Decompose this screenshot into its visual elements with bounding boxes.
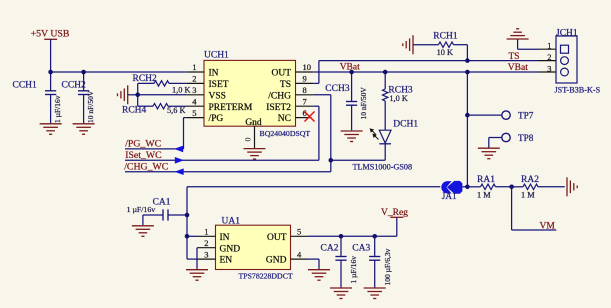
svg-text:OUT: OUT [271,69,291,79]
svg-text:/PG: /PG [209,114,224,124]
svg-text:UCH1: UCH1 [204,51,229,61]
svg-text:CCH1: CCH1 [13,80,38,90]
svg-text:IN: IN [209,69,219,79]
svg-text:CCH3: CCH3 [325,84,350,94]
svg-text:/CHG_WC: /CHG_WC [124,162,168,173]
svg-text:TP8: TP8 [518,133,534,143]
svg-text:JCH1: JCH1 [556,29,578,39]
svg-text:Gnd: Gnd [245,118,262,128]
svg-text:RCH1: RCH1 [433,31,458,41]
svg-text:RCH4: RCH4 [122,106,147,116]
svg-text:5: 5 [192,108,196,118]
svg-text:RCH2: RCH2 [133,74,158,84]
svg-text:ISet_WC: ISet_WC [125,150,161,161]
svg-text:5: 5 [297,227,301,237]
svg-text:DCH1: DCH1 [393,120,418,130]
svg-text:CCH2: CCH2 [62,80,87,90]
svg-text:3: 3 [547,64,551,74]
svg-text:8: 8 [303,85,307,95]
svg-text:ISET2: ISET2 [266,103,291,113]
svg-text:JST-B3B-K-S: JST-B3B-K-S [555,86,601,95]
svg-text:GND: GND [266,256,287,266]
svg-text:RA2: RA2 [521,175,539,185]
svg-text:NC: NC [278,114,291,124]
svg-text:TPS78228DDCT: TPS78228DDCT [239,271,293,280]
svg-text:ISET: ISET [209,80,229,90]
svg-text:1,0 K: 1,0 K [172,85,190,94]
svg-text:VSS: VSS [209,91,226,101]
svg-text:10: 10 [303,62,312,72]
svg-text:9: 9 [303,74,307,84]
svg-text:IN: IN [220,233,230,243]
svg-text:1 µF/16v: 1 µF/16v [349,256,358,284]
svg-text:+5V USB: +5V USB [31,28,70,39]
svg-text:PRETERM: PRETERM [209,103,253,113]
svg-text:5,6 K: 5,6 K [167,106,185,115]
svg-text:VBat: VBat [508,63,528,73]
svg-text:TP7: TP7 [518,111,534,121]
svg-text:EN: EN [220,256,233,266]
svg-text:/PG_WC: /PG_WC [125,139,161,150]
svg-text:2: 2 [204,238,208,248]
svg-text:CA3: CA3 [352,243,370,253]
svg-text:1: 1 [204,227,208,237]
svg-text:1,0 K: 1,0 K [389,94,407,103]
svg-text:1: 1 [547,41,551,51]
svg-text:10 nF/50V: 10 nF/50V [359,87,368,120]
svg-text:3: 3 [192,85,196,95]
svg-text:2: 2 [192,74,196,84]
svg-text:VM: VM [540,221,556,231]
svg-text:1 M: 1 M [477,190,491,199]
svg-text:BQ24040DSQT: BQ24040DSQT [260,129,311,138]
svg-text:2: 2 [547,52,551,62]
svg-text:TLMS1000-GS08: TLMS1000-GS08 [353,163,413,172]
svg-text:0: 0 [244,138,253,142]
svg-text:CA2: CA2 [321,243,339,253]
svg-text:7: 7 [303,96,307,106]
svg-text:10 K: 10 K [437,48,453,57]
svg-text:1 µF/16v: 1 µF/16v [127,205,156,214]
svg-text:1 µF/16v: 1 µF/16v [53,95,62,123]
svg-text:10 nF/50V: 10 nF/50V [86,90,95,123]
svg-text:TS: TS [509,52,520,62]
svg-text:V_Reg: V_Reg [381,208,408,218]
svg-text:1: 1 [192,62,196,72]
svg-text:/CHG: /CHG [268,91,291,101]
svg-text:100 µF/6,3v: 100 µF/6,3v [383,248,392,285]
svg-text:OUT: OUT [267,233,287,243]
svg-text:UA1: UA1 [222,216,241,226]
svg-text:1 M: 1 M [521,190,535,199]
svg-text:RA1: RA1 [477,175,495,185]
svg-text:JA1: JA1 [442,191,457,201]
svg-text:3: 3 [204,249,208,259]
svg-text:CA1: CA1 [153,198,171,208]
svg-text:TS: TS [280,80,291,90]
svg-text:GND: GND [220,244,241,254]
